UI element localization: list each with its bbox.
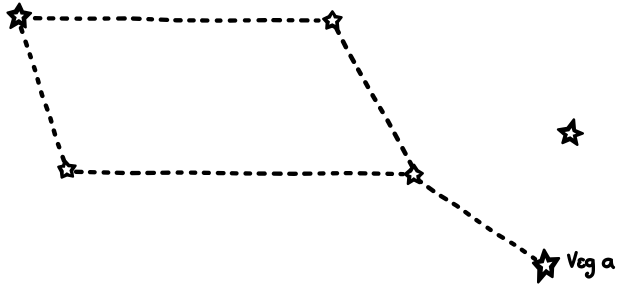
label "Vega" letter a <box>603 259 613 267</box>
star S2 (top) <box>323 12 341 30</box>
label "Vega" letter V <box>569 253 577 267</box>
wire L4 (S2 to S4, right edge) <box>336 28 412 167</box>
star S4 (middle-right) <box>405 165 423 184</box>
star S6 (Vega) <box>533 250 559 282</box>
star S1 (top-left) <box>8 4 31 28</box>
star S3 (lower-left) <box>59 161 76 178</box>
wire L2 (S3 to S1, left edge) <box>21 28 64 161</box>
label "Vega" letter e <box>579 259 585 267</box>
wire L3 (S3 to S4, bottom edge) <box>76 172 403 174</box>
star S5 (isolated right) <box>558 120 583 145</box>
label "Vega" letter g <box>586 260 593 277</box>
wire L1 (S1 to S2, top edge) <box>35 18 319 20</box>
wire L5 (S4 to Vega star) <box>418 180 536 260</box>
